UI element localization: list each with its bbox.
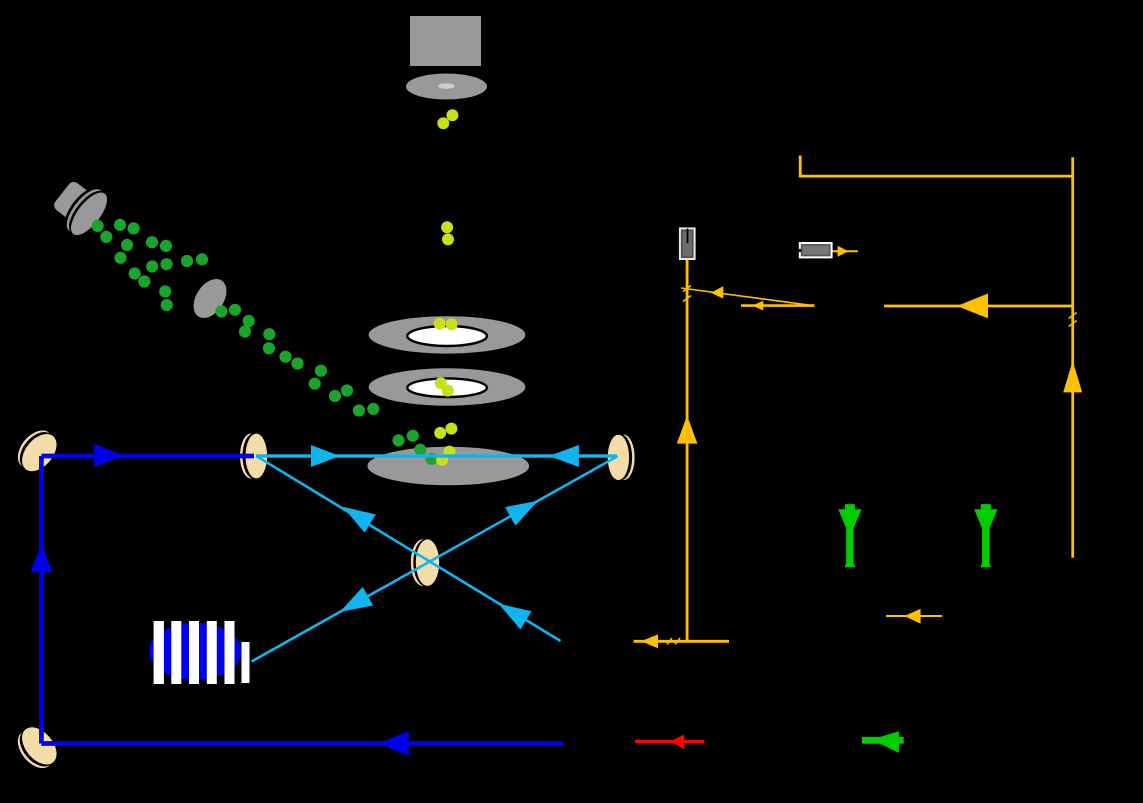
molecules in bottom coil <box>435 377 447 389</box>
blue arrow left <box>378 731 409 756</box>
orange arrow left on fan line 2 <box>752 301 763 311</box>
fringe bars <box>154 621 250 684</box>
falling molecule pair 2 <box>441 221 453 233</box>
small orange arrow mid right <box>886 615 942 617</box>
mid horizontal beam <box>884 305 1073 308</box>
green arrow legend <box>862 731 904 753</box>
cyan arrow right <box>311 445 340 467</box>
molecules above cloud <box>445 423 457 435</box>
green arrow vertical right <box>974 504 997 567</box>
cyan arrow A upper <box>505 501 538 526</box>
orange arrow up on right vertical <box>1063 361 1082 393</box>
nozzle lens disc <box>406 74 487 100</box>
fan line 2 <box>741 304 815 307</box>
fringe ellipse <box>149 623 241 680</box>
cyan arrow A lower <box>340 587 373 612</box>
slashes on right vertical <box>1069 313 1077 319</box>
waveplate W <box>411 539 439 586</box>
slashes on photodiode line <box>667 286 1077 645</box>
cyan arrow left <box>549 445 579 467</box>
green arrow vertical left <box>838 504 861 567</box>
molecules at cloud <box>444 446 456 458</box>
bottom L beam horizontal <box>634 640 729 643</box>
red arrow legend <box>635 740 704 743</box>
molecules in top coil <box>434 318 446 330</box>
blue beam top <box>41 454 254 459</box>
blue arrow right <box>94 444 123 467</box>
atomic beam green atoms <box>92 219 438 465</box>
bottom L beam vertical (from photodiode) <box>686 259 689 641</box>
nozzle lens highlight <box>438 83 454 89</box>
slashes on bottom L <box>667 638 672 645</box>
orange arrow up on photodiode line <box>677 416 698 444</box>
nozzle body <box>410 16 481 66</box>
cyan horizontal beam <box>252 456 618 662</box>
blue arrow up <box>30 543 52 572</box>
cyan diagonal A <box>252 456 618 661</box>
clock laser bracket <box>634 156 1073 642</box>
fan line 1 <box>681 288 815 306</box>
cyan arrow B upper <box>343 507 376 533</box>
cyan arrow B lower <box>499 604 532 630</box>
photodiode PD <box>680 228 695 259</box>
mirror M2 <box>240 434 267 479</box>
orange arrow right from AOM <box>832 251 943 616</box>
mirror M1 <box>11 424 64 478</box>
blue beam vertical <box>39 456 44 744</box>
atom cloud disc <box>367 447 529 486</box>
slower lens <box>187 273 234 324</box>
mirror M3 <box>608 435 635 480</box>
orange arrow big left on mid beam <box>957 294 988 319</box>
cyan diagonal B <box>256 456 560 641</box>
oven <box>46 173 113 241</box>
orange arrow left on fan line 1 <box>711 286 724 299</box>
orange arrow left on bottom L <box>641 634 658 648</box>
AOM box <box>798 243 831 257</box>
right vertical beam <box>1071 157 1074 558</box>
mirror M4 <box>11 721 64 775</box>
falling molecule pair 1 <box>434 109 459 466</box>
MOT coil top <box>369 316 526 353</box>
MOT coil bottom <box>369 368 526 405</box>
blue beam bottom <box>41 456 563 744</box>
